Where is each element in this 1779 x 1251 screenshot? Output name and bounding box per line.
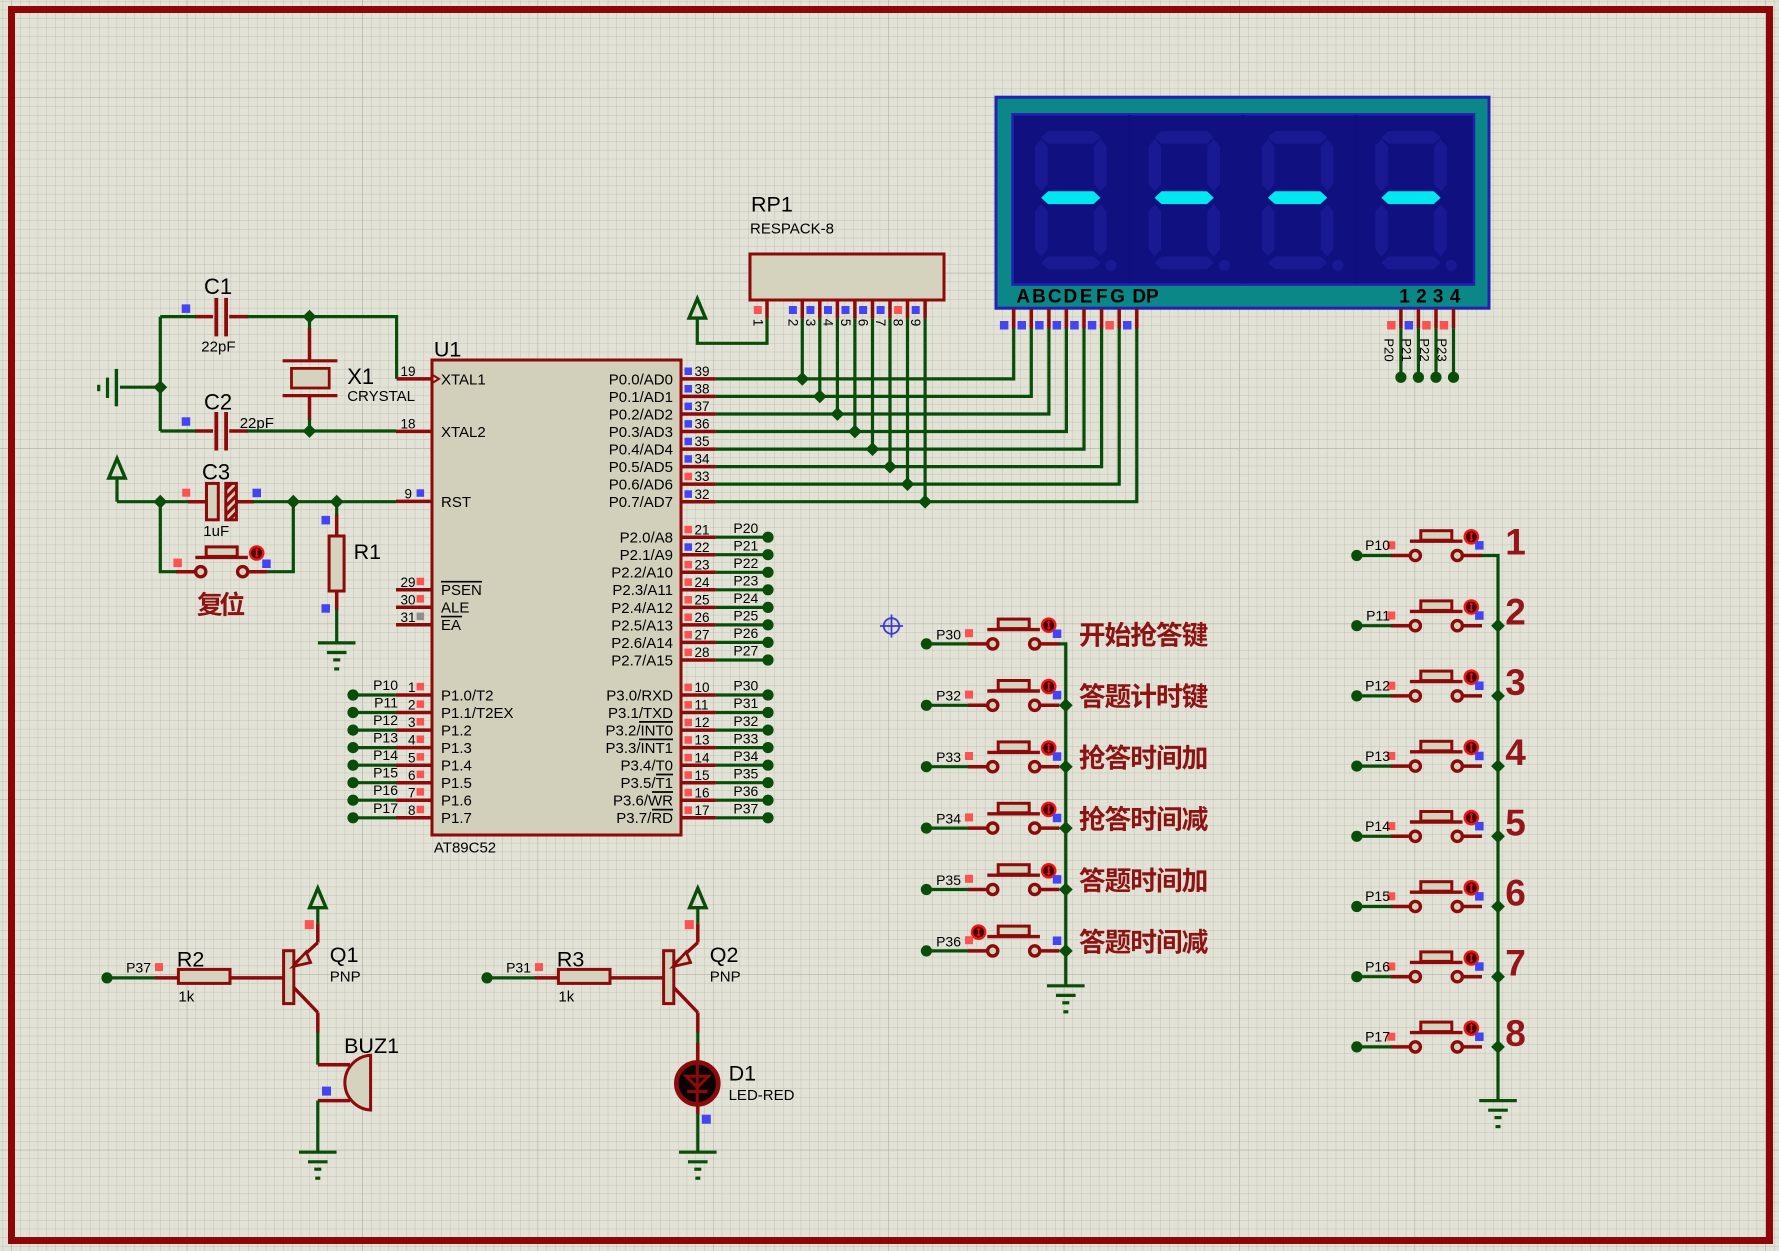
- svg-text:29: 29: [400, 575, 415, 590]
- junction: [1491, 900, 1505, 914]
- svg-text:8: 8: [1505, 1013, 1526, 1054]
- svg-text:P34: P34: [733, 748, 758, 764]
- svg-text:P0.6/AD6: P0.6/AD6: [609, 477, 673, 494]
- svg-text:C3: C3: [202, 460, 230, 485]
- svg-text:5: 5: [838, 319, 853, 327]
- svg-text:P35: P35: [733, 765, 758, 781]
- svg-text:3: 3: [408, 715, 416, 730]
- svg-text:P24: P24: [733, 590, 758, 606]
- wire: [316, 1101, 319, 1153]
- pin 36 P0.3/AD3: [609, 417, 716, 441]
- wire: [716, 328, 1102, 467]
- pin 9 RST: [396, 487, 471, 511]
- svg-text:1k: 1k: [178, 989, 194, 1006]
- wire: [698, 1104, 711, 1153]
- push button P14: [1387, 811, 1483, 841]
- node P27: [733, 643, 773, 666]
- svg-text:P11: P11: [1366, 607, 1390, 623]
- pin 35 P0.4/AD4: [609, 434, 716, 458]
- node P37: [101, 960, 163, 984]
- wire: [335, 502, 338, 515]
- push button P11: [1387, 600, 1483, 630]
- junction: [1491, 829, 1505, 843]
- node P17: [347, 800, 398, 824]
- wire: [716, 328, 1014, 379]
- svg-text:14: 14: [695, 750, 711, 765]
- svg-text:P13: P13: [373, 730, 398, 746]
- svg-text:10: 10: [695, 680, 710, 695]
- display pin F: [1088, 309, 1102, 330]
- wire bus: [1482, 556, 1499, 1101]
- wire: [1357, 975, 1392, 978]
- svg-text:C: C: [1048, 286, 1062, 307]
- wire: [871, 319, 874, 450]
- junction: [831, 407, 845, 421]
- capacitor C2: [182, 390, 274, 451]
- node P25: [733, 608, 773, 631]
- svg-text:4: 4: [1505, 732, 1526, 773]
- node P22: [733, 555, 773, 578]
- pin 5 P1.4: [396, 750, 472, 774]
- svg-text:P31: P31: [733, 695, 758, 711]
- wire: [335, 609, 338, 643]
- resistor pack RP1 RESPACK-8: [750, 193, 944, 301]
- svg-text:3: 3: [803, 319, 818, 327]
- ground: [1479, 1101, 1517, 1127]
- svg-text:P27: P27: [733, 643, 758, 659]
- node P36: [921, 933, 961, 956]
- svg-text:P33: P33: [733, 730, 758, 746]
- junction: [866, 442, 880, 456]
- node P23: [1434, 338, 1459, 383]
- svg-text:38: 38: [695, 382, 710, 397]
- svg-text:37: 37: [695, 399, 710, 414]
- svg-text:D: D: [1064, 286, 1078, 307]
- display pin digit 2: [1405, 309, 1419, 330]
- node P14: [347, 747, 398, 771]
- wire net P15: [353, 781, 396, 784]
- svg-text:9: 9: [908, 319, 923, 327]
- label 答题计时键: [1079, 683, 1207, 709]
- pin 2 P1.1/T2EX: [396, 698, 514, 722]
- pin 27 P2.6/A14: [611, 628, 715, 652]
- svg-text:9: 9: [404, 487, 412, 502]
- push button P10: [1387, 530, 1483, 560]
- svg-text:AT89C52: AT89C52: [434, 840, 496, 857]
- wire: [247, 429, 396, 432]
- wire: [716, 328, 1137, 502]
- svg-text:P3.6/WR: P3.6/WR: [613, 793, 673, 810]
- push button P17: [1387, 1022, 1483, 1052]
- svg-text:23: 23: [695, 557, 710, 572]
- svg-text:P37: P37: [126, 960, 151, 976]
- svg-text:XTAL2: XTAL2: [441, 424, 486, 441]
- svg-text:36: 36: [695, 417, 710, 432]
- buzzer BUZ1: [318, 1034, 399, 1110]
- svg-text:P0.4/AD4: P0.4/AD4: [609, 442, 673, 459]
- power vcc: [690, 888, 706, 923]
- wire: [160, 315, 196, 318]
- junction: [153, 495, 167, 509]
- svg-text:EA: EA: [441, 617, 461, 634]
- wire: [117, 500, 196, 503]
- wire net P21: [716, 553, 768, 556]
- node P30: [733, 678, 773, 701]
- svg-text:PNP: PNP: [710, 969, 741, 986]
- capacitor C1: [182, 274, 248, 356]
- wire net P32: [716, 728, 768, 731]
- svg-text:P3.1/TXD: P3.1/TXD: [608, 705, 673, 722]
- svg-text:P0.0/AD0: P0.0/AD0: [609, 371, 673, 388]
- svg-text:P0.2/AD2: P0.2/AD2: [609, 406, 673, 423]
- label 答题时间减: [1079, 929, 1207, 954]
- wire: [267, 502, 293, 572]
- svg-text:P14: P14: [373, 747, 398, 763]
- pin 31 EA: [396, 610, 462, 634]
- node P32: [921, 688, 961, 711]
- wire: [716, 328, 1084, 449]
- svg-text:1: 1: [1399, 286, 1410, 307]
- display pin G: [1105, 309, 1119, 330]
- svg-text:6: 6: [1505, 873, 1526, 914]
- svg-text:U1: U1: [434, 338, 461, 362]
- digit separator: [1128, 115, 1131, 284]
- wire net P36: [716, 799, 768, 802]
- svg-text:R2: R2: [177, 948, 204, 972]
- wire net P30: [716, 693, 768, 696]
- junction: [901, 477, 915, 491]
- pin 12 P3.2/INT0: [605, 715, 715, 739]
- wire: [926, 826, 968, 829]
- junction: [1491, 1040, 1505, 1054]
- display pin C: [1035, 309, 1049, 330]
- wire: [818, 319, 821, 397]
- wire: [926, 704, 968, 707]
- svg-text:P15: P15: [373, 765, 398, 781]
- power vcc: [109, 459, 125, 502]
- svg-text:P1.5: P1.5: [441, 775, 472, 792]
- svg-text:Q1: Q1: [330, 943, 359, 967]
- junction: [1059, 944, 1073, 958]
- svg-text:22: 22: [695, 540, 710, 555]
- svg-text:Q2: Q2: [710, 943, 739, 967]
- wire: [159, 317, 162, 431]
- wire net P25: [716, 623, 768, 626]
- pin 14 P3.4/T0: [620, 750, 715, 774]
- push button P33: [965, 741, 1061, 771]
- svg-text:35: 35: [695, 434, 710, 449]
- svg-text:RP1: RP1: [751, 193, 793, 217]
- svg-text:P36: P36: [733, 783, 758, 799]
- pin 17 P3.7/RD: [616, 803, 715, 827]
- push button P30: [965, 619, 1061, 649]
- pin 24 P2.3/A11: [612, 575, 715, 599]
- node P31: [733, 695, 773, 718]
- svg-text:B: B: [1032, 286, 1046, 307]
- pin 6 RP1: [856, 300, 873, 326]
- svg-text:P23: P23: [733, 573, 758, 589]
- svg-text:RST: RST: [441, 494, 471, 511]
- pin 32 P0.7/AD7: [609, 487, 716, 511]
- push button P32: [965, 680, 1061, 710]
- node P35: [733, 765, 773, 788]
- svg-text:34: 34: [695, 452, 711, 467]
- svg-text:6: 6: [856, 319, 871, 327]
- svg-text:P: P: [1146, 286, 1159, 307]
- digit 4: [1375, 131, 1456, 271]
- wire: [1357, 764, 1392, 767]
- pin 11 P3.1/TXD: [608, 698, 716, 722]
- wire net P22: [716, 571, 768, 574]
- svg-text:P25: P25: [733, 608, 758, 624]
- junction: [1059, 760, 1073, 774]
- node P35: [921, 872, 961, 895]
- svg-text:P1.2: P1.2: [441, 723, 472, 740]
- display pin digit 3: [1422, 309, 1436, 330]
- svg-text:P34: P34: [936, 811, 961, 827]
- pin 21 P2.0/A8: [620, 522, 716, 546]
- svg-text:P2.5/A13: P2.5/A13: [611, 617, 673, 634]
- svg-text:P32: P32: [936, 688, 961, 704]
- digit 2: [1149, 131, 1231, 271]
- node P34: [921, 811, 961, 834]
- svg-text:5: 5: [408, 750, 416, 765]
- wire net P20: [716, 536, 768, 539]
- junction: [303, 424, 317, 438]
- svg-text:18: 18: [400, 417, 415, 432]
- node P16: [1351, 958, 1390, 982]
- node P37: [733, 801, 773, 824]
- junction: [1491, 689, 1505, 703]
- svg-text:P12: P12: [1365, 678, 1390, 694]
- node P10: [1351, 537, 1390, 561]
- svg-text:1: 1: [1505, 522, 1526, 563]
- node P30: [921, 626, 961, 649]
- svg-text:22pF: 22pF: [201, 339, 235, 356]
- wire net P14: [353, 764, 396, 767]
- wire: [1357, 554, 1392, 557]
- svg-text:7: 7: [408, 785, 416, 800]
- svg-text:3: 3: [1505, 662, 1526, 703]
- node P32: [733, 713, 773, 736]
- svg-text:7: 7: [873, 319, 888, 327]
- node P20: [733, 520, 773, 543]
- svg-text:16: 16: [695, 785, 710, 800]
- svg-text:R1: R1: [354, 540, 381, 564]
- pin 4 P1.3: [396, 733, 472, 757]
- svg-text:24: 24: [695, 575, 711, 590]
- wire: [926, 642, 968, 645]
- wire net P12: [353, 728, 396, 731]
- svg-text:1: 1: [408, 680, 416, 695]
- wire net P33: [716, 746, 768, 749]
- wire: [906, 319, 909, 485]
- svg-text:4: 4: [1450, 286, 1461, 307]
- svg-text:2: 2: [1505, 592, 1526, 633]
- wire: [253, 500, 396, 503]
- svg-text:P20: P20: [733, 520, 758, 536]
- wire: [716, 328, 1120, 484]
- svg-text:P35: P35: [936, 872, 961, 888]
- svg-text:P30: P30: [733, 678, 758, 694]
- svg-text:39: 39: [695, 364, 710, 379]
- wire: [926, 949, 968, 952]
- svg-text:6: 6: [408, 768, 416, 783]
- pin 6 P1.5: [396, 768, 472, 792]
- wire: [801, 319, 804, 379]
- wire net P22: [1434, 328, 1437, 372]
- wire: [1357, 835, 1392, 838]
- wire: [1357, 624, 1392, 627]
- svg-text:D1: D1: [729, 1062, 756, 1086]
- node P13: [1351, 748, 1390, 772]
- wire: [716, 328, 1032, 396]
- svg-text:P30: P30: [936, 626, 961, 642]
- svg-text:A: A: [1016, 286, 1030, 307]
- pin 8 P1.7: [396, 803, 472, 827]
- svg-text:P17: P17: [373, 800, 398, 816]
- pin 29 PSEN: [396, 575, 482, 599]
- display pin D: [1053, 309, 1067, 330]
- wire net P16: [353, 799, 396, 802]
- wire net P23: [1452, 328, 1455, 372]
- svg-text:30: 30: [400, 592, 415, 607]
- svg-text:P1.6: P1.6: [441, 793, 472, 810]
- svg-text:E: E: [1080, 286, 1093, 307]
- pin 16 P3.6/WR: [613, 785, 716, 809]
- svg-text:19: 19: [400, 364, 415, 379]
- svg-text:F: F: [1096, 286, 1108, 307]
- node P36: [733, 783, 773, 806]
- svg-text:P36: P36: [936, 933, 961, 949]
- svg-text:P1.1/T2EX: P1.1/T2EX: [441, 705, 514, 722]
- svg-text:25: 25: [695, 593, 710, 608]
- pin 38 P0.1/AD1: [609, 382, 716, 406]
- svg-text:P22: P22: [733, 555, 758, 571]
- junction: [1491, 970, 1505, 984]
- pin 7 RP1: [873, 300, 890, 326]
- wire: [716, 328, 1049, 414]
- junction: [286, 495, 300, 509]
- transistor Q1 PNP: [230, 920, 361, 1032]
- junction: [918, 495, 932, 509]
- pin 30 ALE: [396, 592, 469, 616]
- svg-text:P1.3: P1.3: [441, 740, 472, 757]
- wire net P35: [716, 781, 768, 784]
- wire: [853, 319, 856, 432]
- ground: [318, 643, 356, 669]
- node P13: [347, 730, 398, 754]
- push button P13: [1387, 741, 1483, 771]
- svg-text:P1.0/T2: P1.0/T2: [441, 687, 494, 704]
- svg-text:26: 26: [695, 610, 710, 625]
- pin 13 P3.3/INT1: [605, 733, 715, 757]
- svg-text:8: 8: [891, 319, 906, 327]
- svg-text:28: 28: [695, 645, 710, 660]
- IC U1 AT89C52: [432, 338, 681, 857]
- resistor R3 1k: [535, 948, 610, 1006]
- svg-text:2: 2: [1416, 286, 1427, 307]
- svg-text:G: G: [1110, 286, 1125, 307]
- svg-text:31: 31: [400, 610, 415, 625]
- digit separator: [1355, 115, 1358, 284]
- power vcc: [310, 888, 326, 923]
- svg-text:P0.3/AD3: P0.3/AD3: [609, 424, 673, 441]
- digit separator: [1242, 115, 1245, 284]
- junction: [303, 310, 317, 324]
- wire: [160, 429, 196, 432]
- ground: [1047, 986, 1085, 1012]
- pin 34 P0.5/AD5: [609, 452, 716, 476]
- wire: [160, 502, 176, 572]
- svg-text:P0.1/AD1: P0.1/AD1: [609, 389, 673, 406]
- svg-text:P33: P33: [936, 749, 961, 765]
- node P12: [347, 712, 398, 736]
- push button P12: [1387, 671, 1483, 701]
- transistor Q2 PNP: [610, 920, 741, 1032]
- digit 3: [1262, 131, 1344, 271]
- wire: [836, 319, 839, 414]
- ground: [99, 369, 161, 406]
- svg-text:P1.4: P1.4: [441, 758, 472, 775]
- node P15: [347, 765, 398, 789]
- wire: [926, 765, 968, 768]
- wire: [716, 328, 1067, 432]
- svg-text:1: 1: [751, 319, 766, 327]
- wire: [1357, 694, 1392, 697]
- display pin B: [1018, 309, 1032, 330]
- svg-text:5: 5: [1505, 802, 1526, 843]
- display pin digit 4: [1440, 309, 1454, 330]
- crystal X1: [283, 328, 415, 420]
- node P24: [733, 590, 773, 613]
- wire: [316, 1032, 319, 1065]
- node P21: [1399, 338, 1424, 383]
- svg-text:1uF: 1uF: [203, 523, 229, 540]
- node P22: [1417, 338, 1442, 383]
- svg-text:P2.0/A8: P2.0/A8: [620, 530, 673, 547]
- wire: [888, 319, 891, 467]
- resistor R1: [322, 514, 382, 613]
- wire: [697, 318, 767, 343]
- svg-text:17: 17: [695, 803, 710, 818]
- junction: [330, 495, 344, 509]
- pin 1 RP1: [751, 300, 768, 326]
- svg-text:P16: P16: [1365, 958, 1390, 974]
- wire net P17: [353, 816, 396, 819]
- pin 37 P0.2/AD2: [609, 399, 716, 423]
- svg-text:27: 27: [695, 628, 710, 643]
- junction: [1059, 883, 1073, 897]
- svg-text:11: 11: [695, 698, 709, 713]
- junction: [883, 460, 897, 474]
- pin 10 P3.0/RXD: [606, 680, 715, 704]
- wire: [696, 1032, 699, 1065]
- svg-text:1k: 1k: [558, 989, 574, 1006]
- origin marker: [880, 615, 903, 638]
- display 4-digit 7-segment: [996, 97, 1489, 308]
- wire: [308, 317, 311, 329]
- node P11: [347, 695, 398, 719]
- pin 15 P3.5/T1: [620, 768, 715, 792]
- svg-text:P11: P11: [374, 695, 398, 711]
- svg-text:PNP: PNP: [330, 969, 361, 986]
- svg-text:8: 8: [408, 803, 416, 818]
- wire net P21: [1417, 328, 1420, 372]
- wire net P31: [716, 711, 768, 714]
- svg-text:P0.5/AD5: P0.5/AD5: [609, 459, 673, 476]
- wire: [308, 419, 311, 431]
